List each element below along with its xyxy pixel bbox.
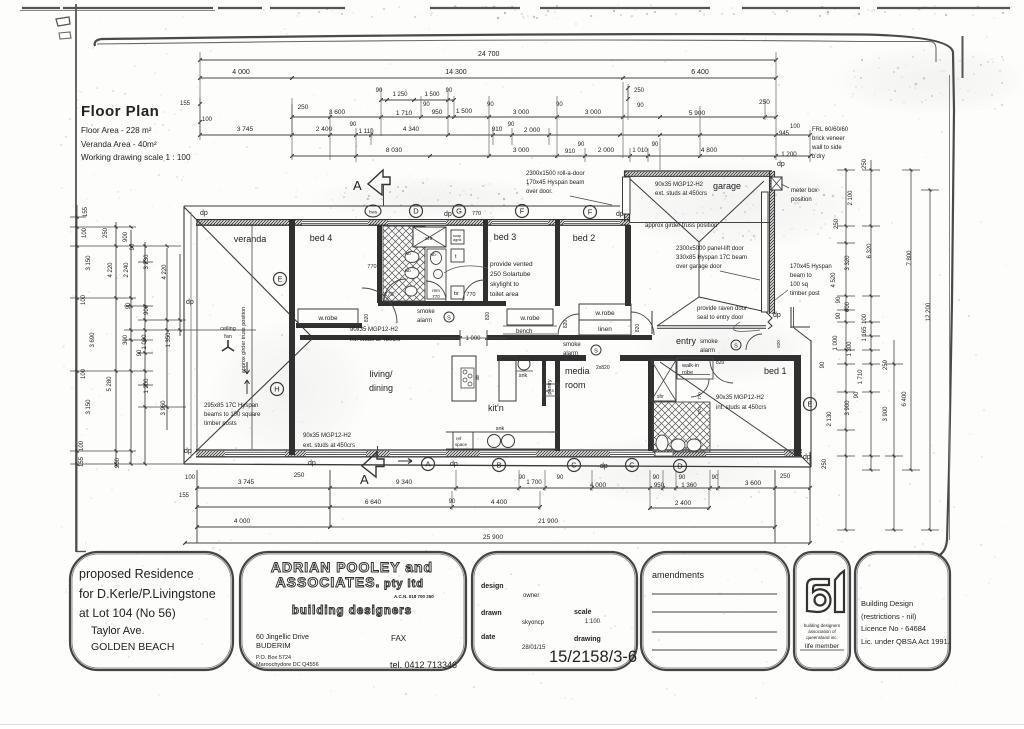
svg-text:1 300: 1 300 xyxy=(847,341,853,357)
svg-text:250: 250 xyxy=(298,104,309,111)
svg-text:770: 770 xyxy=(432,294,440,299)
svg-text:170x45 Hyspan: 170x45 Hyspan xyxy=(790,264,832,270)
svg-text:beam to: beam to xyxy=(790,273,812,279)
svg-text:pty ltd: pty ltd xyxy=(384,578,424,590)
svg-text:kit'n: kit'n xyxy=(488,403,504,413)
svg-text:timber post: timber post xyxy=(790,291,820,297)
svg-text:1 000: 1 000 xyxy=(833,335,839,351)
svg-text:A: A xyxy=(353,178,362,193)
svg-text:770: 770 xyxy=(472,211,481,217)
svg-text:building designers: building designers xyxy=(292,605,412,617)
svg-text:D: D xyxy=(677,462,683,471)
svg-text:770: 770 xyxy=(697,392,702,400)
svg-text:wb: wb xyxy=(430,252,436,257)
svg-text:90: 90 xyxy=(679,475,686,481)
svg-text:250: 250 xyxy=(115,457,121,468)
svg-text:B: B xyxy=(496,461,501,470)
svg-text:br: br xyxy=(454,291,459,297)
svg-text:15/2158/3-6: 15/2158/3-6 xyxy=(549,648,637,666)
svg-text:bed 2: bed 2 xyxy=(573,233,596,243)
svg-text:linen: linen xyxy=(598,326,612,333)
svg-text:Floor Area - 228 m²: Floor Area - 228 m² xyxy=(81,126,152,135)
svg-text:queensland inc.: queensland inc. xyxy=(806,635,838,640)
svg-text:dp: dp xyxy=(186,299,194,306)
svg-text:90: 90 xyxy=(126,302,132,309)
svg-text:Lic. under QBSA Act 1991.: Lic. under QBSA Act 1991. xyxy=(861,637,950,646)
svg-text:295x85 17C Hyspan: 295x85 17C Hyspan xyxy=(204,403,258,409)
svg-text:ref: ref xyxy=(456,436,462,441)
svg-text:building designers: building designers xyxy=(804,623,841,628)
svg-text:E: E xyxy=(807,400,812,409)
svg-text:media: media xyxy=(565,366,590,376)
svg-text:3 150: 3 150 xyxy=(86,399,92,415)
svg-text:900: 900 xyxy=(123,231,129,242)
svg-text:90: 90 xyxy=(519,475,526,481)
svg-text:FAX: FAX xyxy=(391,634,407,643)
svg-text:1 000: 1 000 xyxy=(465,336,481,342)
svg-text:3 900: 3 900 xyxy=(845,400,851,416)
svg-text:bench: bench xyxy=(516,329,532,335)
svg-text:100: 100 xyxy=(790,124,801,130)
svg-text:3 000: 3 000 xyxy=(513,147,530,154)
svg-text:dp: dp xyxy=(200,210,208,217)
svg-text:90: 90 xyxy=(652,142,659,148)
svg-text:155: 155 xyxy=(179,493,190,499)
svg-text:100: 100 xyxy=(81,294,87,305)
svg-text:60 Jingellic Drive: 60 Jingellic Drive xyxy=(256,634,309,641)
svg-text:770: 770 xyxy=(367,264,376,270)
svg-text:room: room xyxy=(565,380,586,390)
svg-text:100: 100 xyxy=(862,313,868,324)
svg-text:skyoncp: skyoncp xyxy=(522,620,545,626)
svg-text:garage: garage xyxy=(713,181,741,191)
svg-text:90: 90 xyxy=(578,142,585,148)
svg-text:Building Design: Building Design xyxy=(861,599,913,608)
svg-text:4 000: 4 000 xyxy=(234,518,251,525)
svg-text:approx girder truss position: approx girder truss position xyxy=(241,307,247,373)
svg-text:dining: dining xyxy=(369,383,393,393)
svg-text:4 000: 4 000 xyxy=(590,482,607,489)
svg-text:9 340: 9 340 xyxy=(396,479,413,486)
svg-text:position: position xyxy=(791,197,812,203)
svg-text:3 600: 3 600 xyxy=(745,480,762,487)
svg-text:1 165: 1 165 xyxy=(862,326,868,342)
svg-text:90: 90 xyxy=(446,88,453,94)
svg-text:770: 770 xyxy=(466,292,475,298)
svg-text:dp 8: dp 8 xyxy=(546,388,555,393)
svg-text:agrst: agrst xyxy=(453,238,462,242)
svg-text:amendments: amendments xyxy=(652,570,705,580)
svg-text:250: 250 xyxy=(883,359,889,370)
svg-text:945: 945 xyxy=(779,131,790,137)
svg-text:toilet area: toilet area xyxy=(490,291,519,298)
svg-text:155: 155 xyxy=(180,101,191,107)
svg-text:90: 90 xyxy=(637,103,644,109)
svg-text:1:100: 1:100 xyxy=(585,619,601,625)
svg-text:3 230: 3 230 xyxy=(144,254,150,270)
svg-text:7 800: 7 800 xyxy=(907,250,913,266)
svg-text:820: 820 xyxy=(635,324,641,333)
svg-text:250: 250 xyxy=(103,227,109,238)
svg-text:smoke: smoke xyxy=(700,339,718,345)
svg-text:Licence No - 64684: Licence No - 64684 xyxy=(861,624,926,633)
svg-text:A.C.N. 018 700 250: A.C.N. 018 700 250 xyxy=(394,594,434,599)
svg-text:1 360: 1 360 xyxy=(681,482,697,489)
svg-text:dp: dp xyxy=(450,461,458,468)
svg-text:4 220: 4 220 xyxy=(108,262,114,278)
svg-text:820: 820 xyxy=(716,360,725,366)
svg-text:dp: dp xyxy=(184,448,192,455)
svg-text:4 220: 4 220 xyxy=(162,264,168,280)
svg-text:ext. studs at 450crs: ext. studs at 450crs xyxy=(303,443,355,449)
svg-text:robe: robe xyxy=(682,370,693,376)
svg-text:1 500: 1 500 xyxy=(456,108,473,115)
svg-text:4 340: 4 340 xyxy=(403,126,420,133)
svg-text:1 200: 1 200 xyxy=(144,378,150,394)
svg-text:910: 910 xyxy=(565,148,576,155)
svg-text:date: date xyxy=(481,634,496,641)
svg-text:Maroochydore DC Q4556: Maroochydore DC Q4556 xyxy=(256,662,319,668)
svg-text:330x85 Hyspan 17C beam: 330x85 Hyspan 17C beam xyxy=(676,255,747,261)
svg-text:w.robe: w.robe xyxy=(317,315,338,322)
svg-text:ceiling: ceiling xyxy=(220,326,236,332)
svg-text:820: 820 xyxy=(485,312,491,321)
svg-text:90: 90 xyxy=(557,475,564,481)
svg-text:90: 90 xyxy=(130,243,136,250)
svg-text:2 130: 2 130 xyxy=(827,411,833,427)
svg-text:3 000: 3 000 xyxy=(585,109,602,116)
svg-text:21 900: 21 900 xyxy=(538,518,558,525)
svg-text:90: 90 xyxy=(423,102,430,108)
svg-text:250: 250 xyxy=(822,458,828,469)
svg-text:approx girder truss position: approx girder truss position xyxy=(645,223,717,229)
svg-text:wb: wb xyxy=(405,251,411,256)
svg-text:w.robe: w.robe xyxy=(519,315,540,322)
svg-text:90: 90 xyxy=(376,88,383,94)
svg-text:association of: association of xyxy=(808,629,836,634)
svg-text:E: E xyxy=(277,275,282,284)
svg-text:Veranda Area - 40m²: Veranda Area - 40m² xyxy=(81,140,157,149)
svg-text:bed 1: bed 1 xyxy=(764,366,787,376)
svg-text:C: C xyxy=(571,461,577,470)
svg-text:3 900: 3 900 xyxy=(883,406,889,422)
svg-text:alarm: alarm xyxy=(563,351,578,357)
svg-text:bed 4: bed 4 xyxy=(310,233,333,243)
svg-text:ADRIAN POOLEY and: ADRIAN POOLEY and xyxy=(271,559,433,575)
svg-text:155: 155 xyxy=(83,206,89,217)
svg-text:100: 100 xyxy=(82,227,88,238)
svg-text:dp: dp xyxy=(803,454,811,461)
svg-text:BUDERIM: BUDERIM xyxy=(256,641,291,650)
svg-text:alarm: alarm xyxy=(700,348,715,354)
svg-text:1 250: 1 250 xyxy=(392,92,408,98)
svg-text:seal to entry door: seal to entry door xyxy=(697,315,743,321)
svg-text:2 000: 2 000 xyxy=(598,147,615,154)
svg-text:3 150: 3 150 xyxy=(86,255,92,271)
svg-text:100: 100 xyxy=(81,368,87,379)
svg-text:hws: hws xyxy=(369,210,378,215)
svg-text:tel. 0412 713346: tel. 0412 713346 xyxy=(390,660,457,670)
svg-text:dp: dp xyxy=(444,211,452,218)
svg-text:A: A xyxy=(360,472,369,487)
svg-text:250 Solartube: 250 Solartube xyxy=(490,271,531,278)
svg-text:1 110: 1 110 xyxy=(358,128,374,135)
svg-text:dp: dp xyxy=(600,463,608,470)
svg-text:rem: rem xyxy=(432,288,440,293)
svg-text:90: 90 xyxy=(508,122,515,128)
svg-text:90: 90 xyxy=(350,122,357,128)
svg-text:1 500: 1 500 xyxy=(424,92,440,98)
svg-text:3 690: 3 690 xyxy=(90,332,96,348)
svg-text:provide vented: provide vented xyxy=(490,261,533,268)
svg-text:P.O. Box 5724: P.O. Box 5724 xyxy=(256,655,291,661)
svg-text:D: D xyxy=(413,207,419,216)
svg-text:drawing: drawing xyxy=(574,636,601,643)
svg-text:FRL 60/60/60: FRL 60/60/60 xyxy=(812,127,849,133)
svg-text:1 350: 1 350 xyxy=(166,332,172,348)
svg-text:170x45 Hyspan beam: 170x45 Hyspan beam xyxy=(526,180,584,186)
svg-text:owner: owner xyxy=(523,593,539,599)
svg-text:H: H xyxy=(274,385,279,394)
svg-text:90: 90 xyxy=(836,312,842,319)
svg-text:(restrictions - nil): (restrictions - nil) xyxy=(861,612,917,621)
svg-text:b'dry: b'dry xyxy=(812,154,825,160)
svg-text:90x35 MGP12-H2: 90x35 MGP12-H2 xyxy=(350,327,399,333)
svg-text:F: F xyxy=(520,207,525,216)
svg-text:timber posts: timber posts xyxy=(204,421,237,427)
svg-text:1 710: 1 710 xyxy=(396,110,413,117)
svg-text:beams to 100 square: beams to 100 square xyxy=(204,412,261,418)
svg-text:2 100: 2 100 xyxy=(848,190,854,206)
svg-text:90: 90 xyxy=(137,349,143,356)
svg-text:100: 100 xyxy=(79,440,85,451)
svg-text:Working drawing scale 1 : 100: Working drawing scale 1 : 100 xyxy=(81,153,191,162)
svg-text:scale: scale xyxy=(574,609,592,616)
svg-text:100 sq: 100 sq xyxy=(790,282,808,288)
svg-text:950: 950 xyxy=(432,109,443,116)
svg-text:90x35 MGP12-H2: 90x35 MGP12-H2 xyxy=(716,395,765,401)
svg-text:8 030: 8 030 xyxy=(386,147,403,154)
svg-text:6 400: 6 400 xyxy=(902,391,908,407)
svg-text:entry: entry xyxy=(676,336,697,346)
svg-text:Taylor Ave.: Taylor Ave. xyxy=(91,625,145,637)
svg-text:over garage door: over garage door xyxy=(676,264,722,270)
svg-text:at Lot 104 (No 56): at Lot 104 (No 56) xyxy=(79,606,176,620)
svg-text:proposed Residence: proposed Residence xyxy=(79,567,194,581)
svg-text:820: 820 xyxy=(563,320,569,329)
svg-text:drawn: drawn xyxy=(481,610,502,617)
svg-text:250: 250 xyxy=(759,99,770,106)
svg-text:1 000: 1 000 xyxy=(142,334,148,350)
svg-text:over door.: over door. xyxy=(526,189,553,195)
svg-text:600: 600 xyxy=(845,301,851,312)
svg-text:6 320: 6 320 xyxy=(867,243,873,259)
svg-text:4 520: 4 520 xyxy=(831,272,837,288)
svg-text:S: S xyxy=(594,349,598,355)
svg-text:ext. studs at 450crs: ext. studs at 450crs xyxy=(655,191,707,197)
svg-text:S: S xyxy=(447,316,451,322)
svg-text:4 400: 4 400 xyxy=(491,499,508,506)
svg-text:shr: shr xyxy=(425,236,433,242)
svg-text:2x820: 2x820 xyxy=(596,365,610,371)
svg-text:veranda: veranda xyxy=(234,234,267,244)
svg-text:w.robe: w.robe xyxy=(594,310,615,317)
svg-text:900: 900 xyxy=(144,304,150,315)
svg-text:GOLDEN BEACH: GOLDEN BEACH xyxy=(91,641,174,653)
svg-text:3 745: 3 745 xyxy=(238,479,255,486)
svg-text:1 200: 1 200 xyxy=(781,151,797,158)
svg-text:G: G xyxy=(456,207,462,216)
svg-text:snk: snk xyxy=(519,373,528,379)
svg-text:dp: dp xyxy=(308,460,316,467)
svg-text:2300x1500 roll-a-door: 2300x1500 roll-a-door xyxy=(526,171,585,177)
svg-text:walk-in: walk-in xyxy=(681,363,699,369)
svg-text:snk: snk xyxy=(496,426,505,432)
svg-text:bed 3: bed 3 xyxy=(494,232,517,242)
svg-text:12 200: 12 200 xyxy=(926,302,932,321)
svg-text:skylight to: skylight to xyxy=(490,281,519,288)
svg-text:24 700: 24 700 xyxy=(478,51,500,58)
svg-text:alarm: alarm xyxy=(417,318,432,324)
svg-text:int. studs at 450crs: int. studs at 450crs xyxy=(716,405,766,411)
svg-text:820: 820 xyxy=(776,340,781,348)
svg-text:3 600: 3 600 xyxy=(329,109,346,116)
svg-text:provide raven door: provide raven door xyxy=(697,306,747,312)
svg-text:14 300: 14 300 xyxy=(445,69,467,76)
svg-text:meter box: meter box xyxy=(791,188,818,194)
svg-text:90: 90 xyxy=(653,475,660,481)
svg-text:28/01/15: 28/01/15 xyxy=(522,645,546,651)
svg-text:A: A xyxy=(425,460,430,469)
svg-text:1 710: 1 710 xyxy=(858,369,864,385)
svg-text:90: 90 xyxy=(854,391,860,398)
svg-text:3 000: 3 000 xyxy=(513,109,530,116)
svg-text:1 010: 1 010 xyxy=(632,147,648,154)
svg-text:ASSOCIATES.: ASSOCIATES. xyxy=(276,574,381,590)
svg-text:155: 155 xyxy=(79,456,85,467)
svg-text:db: db xyxy=(475,374,480,380)
svg-text:5 280: 5 280 xyxy=(107,376,113,392)
svg-text:life member: life member xyxy=(805,643,840,650)
svg-text:4 000: 4 000 xyxy=(232,69,250,76)
svg-text:25 900: 25 900 xyxy=(483,534,503,541)
svg-text:int. studs at 450crs: int. studs at 450crs xyxy=(350,337,400,343)
svg-text:dp: dp xyxy=(777,161,785,168)
svg-text:820: 820 xyxy=(364,314,370,323)
svg-text:300: 300 xyxy=(123,334,129,345)
svg-text:2 000: 2 000 xyxy=(524,127,541,134)
svg-text:brick veneer: brick veneer xyxy=(812,136,845,142)
svg-text:smoke: smoke xyxy=(563,342,581,348)
svg-text:F: F xyxy=(588,208,593,217)
svg-text:2300x5000 panel-lift door: 2300x5000 panel-lift door xyxy=(676,246,744,252)
svg-text:250: 250 xyxy=(862,158,868,169)
svg-text:fan: fan xyxy=(224,334,232,340)
svg-text:living/: living/ xyxy=(369,369,393,379)
svg-text:250: 250 xyxy=(780,473,791,480)
svg-text:90x35 MGP12-H2: 90x35 MGP12-H2 xyxy=(303,433,352,439)
svg-text:250: 250 xyxy=(294,472,305,479)
svg-text:wb: wb xyxy=(405,268,411,273)
svg-text:5 900: 5 900 xyxy=(689,110,706,117)
svg-text:100: 100 xyxy=(202,117,213,123)
svg-text:250: 250 xyxy=(634,88,645,94)
svg-text:S: S xyxy=(734,344,738,350)
svg-text:3 745: 3 745 xyxy=(237,126,254,133)
svg-text:3 320: 3 320 xyxy=(845,255,851,271)
svg-text:250: 250 xyxy=(834,218,840,229)
svg-text:6 640: 6 640 xyxy=(365,499,382,506)
svg-text:3 960: 3 960 xyxy=(161,400,167,416)
svg-text:100: 100 xyxy=(185,475,196,481)
svg-text:design: design xyxy=(481,583,504,590)
svg-text:90: 90 xyxy=(836,296,842,303)
svg-text:space: space xyxy=(455,442,468,447)
svg-text:for D.Kerle/P.Livingstone: for D.Kerle/P.Livingstone xyxy=(79,587,216,601)
svg-text:90: 90 xyxy=(487,102,494,108)
svg-text:6 400: 6 400 xyxy=(691,69,709,76)
svg-text:C: C xyxy=(629,461,635,470)
svg-text:shr: shr xyxy=(657,394,664,400)
svg-text:smoke: smoke xyxy=(417,309,435,315)
svg-text:Floor Plan: Floor Plan xyxy=(81,103,159,120)
svg-text:2 240: 2 240 xyxy=(124,262,130,278)
svg-text:90: 90 xyxy=(820,361,826,368)
svg-text:4 800: 4 800 xyxy=(701,147,718,154)
svg-text:1 700: 1 700 xyxy=(526,479,542,486)
svg-text:2 400: 2 400 xyxy=(675,500,692,507)
svg-text:770: 770 xyxy=(697,407,702,415)
svg-text:wall to side: wall to side xyxy=(811,145,842,151)
svg-text:90x35 MGP12-H2: 90x35 MGP12-H2 xyxy=(655,182,704,188)
